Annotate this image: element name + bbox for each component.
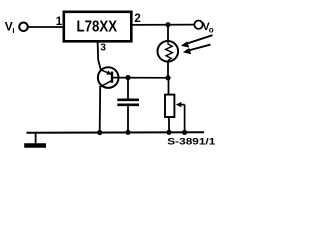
node wiper-rail junction [182,130,187,135]
wire output [133,24,195,26]
wire base [112,77,168,79]
svg-text:3: 3 [100,43,106,54]
transistor Q1 [98,67,119,88]
node output junction [165,22,170,27]
light arrow upper [181,35,213,47]
wire pin 3 [98,42,101,70]
wire input [28,26,63,28]
capacitor C1 [117,78,139,133]
wire output node to LDR [167,25,169,42]
regulator U1 L78XX [64,12,132,42]
wire emitter to rail [99,86,102,133]
terminal Vi [5,20,28,35]
light arrow lower [183,45,211,55]
svg-text:o: o [209,25,214,34]
svg-text:I: I [12,26,14,35]
wire ground rail [27,131,205,134]
wire LDR to base node [167,62,169,78]
svg-text:S-3891/1: S-3891/1 [167,137,216,148]
terminal Vo [194,21,214,35]
node emitter-rail junction [97,130,102,135]
node base junction [165,75,170,80]
node capacitor top junction [125,75,130,80]
svg-text:2: 2 [134,13,140,25]
ground [24,133,46,146]
svg-text:1: 1 [56,16,63,28]
photoresistor R1 (LDR) [158,41,179,62]
potentiometer P1 [165,78,185,133]
svg-text:L78XX: L78XX [77,18,118,35]
node capacitor-rail junction [125,130,130,135]
node potentiometer-rail junction [166,130,171,135]
